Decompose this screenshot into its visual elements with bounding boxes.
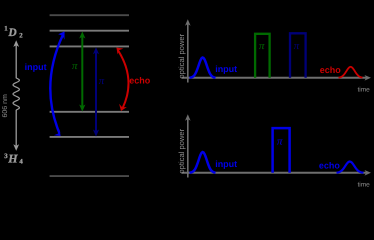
label 1D2: [4, 26, 23, 40]
pi pulse blue rectangle: [273, 128, 290, 173]
input pulse (blue gaussian, bottom plot): [190, 152, 216, 173]
photon arrow 606nm (gray, wavy middle): [13, 40, 19, 151]
x axis (time): [182, 170, 372, 176]
svg-text:time: time: [358, 181, 371, 188]
svg-text:echo: echo: [320, 65, 342, 75]
echo pulse (red gaussian): [339, 67, 363, 78]
svg-text:π: π: [294, 40, 300, 52]
svg-text:input: input: [25, 62, 47, 72]
input pulse (blue gaussian, top plot): [190, 58, 216, 78]
level 1D2 top line (dark): [50, 14, 129, 16]
svg-text:echo: echo: [129, 76, 151, 86]
pi arrow green (straight, both heads): [79, 31, 85, 111]
level 1D2 middle line: [50, 30, 129, 32]
svg-text:π: π: [259, 40, 265, 52]
level 3H4 bottom line (dark): [50, 175, 129, 177]
pi pulse navy rectangle: [290, 33, 306, 78]
echo arrow (red arc, both heads): [116, 48, 128, 112]
x axis (time): [182, 75, 372, 81]
svg-text:D: D: [7, 27, 17, 39]
svg-text:input: input: [215, 159, 237, 169]
pi pulse green rectangle: [255, 34, 270, 78]
echo pulse (blue gaussian, bottom plot): [337, 162, 364, 173]
svg-text:optical power: optical power: [177, 33, 186, 78]
svg-text:echo: echo: [319, 160, 341, 170]
level 1D2 lower line: [50, 45, 129, 47]
svg-text:π: π: [99, 75, 105, 87]
svg-text:time: time: [358, 86, 371, 93]
level 3H4 upper line: [50, 111, 129, 113]
label 3H4: [4, 152, 23, 166]
svg-text:input: input: [215, 64, 237, 74]
input arrow (blue arc, both heads): [50, 31, 64, 136]
y axis (optical power): [185, 19, 191, 82]
y axis (optical power): [185, 114, 191, 177]
svg-text:606 nm: 606 nm: [2, 94, 9, 118]
svg-text:4: 4: [19, 159, 23, 166]
level 3H4 middle line: [50, 136, 129, 138]
svg-text:optical power: optical power: [177, 128, 186, 173]
svg-text:2: 2: [19, 32, 23, 39]
svg-text:π: π: [277, 135, 283, 147]
svg-text:H: H: [7, 152, 18, 166]
pi arrow navy (straight, both heads): [93, 47, 99, 137]
svg-text:π: π: [72, 60, 78, 72]
